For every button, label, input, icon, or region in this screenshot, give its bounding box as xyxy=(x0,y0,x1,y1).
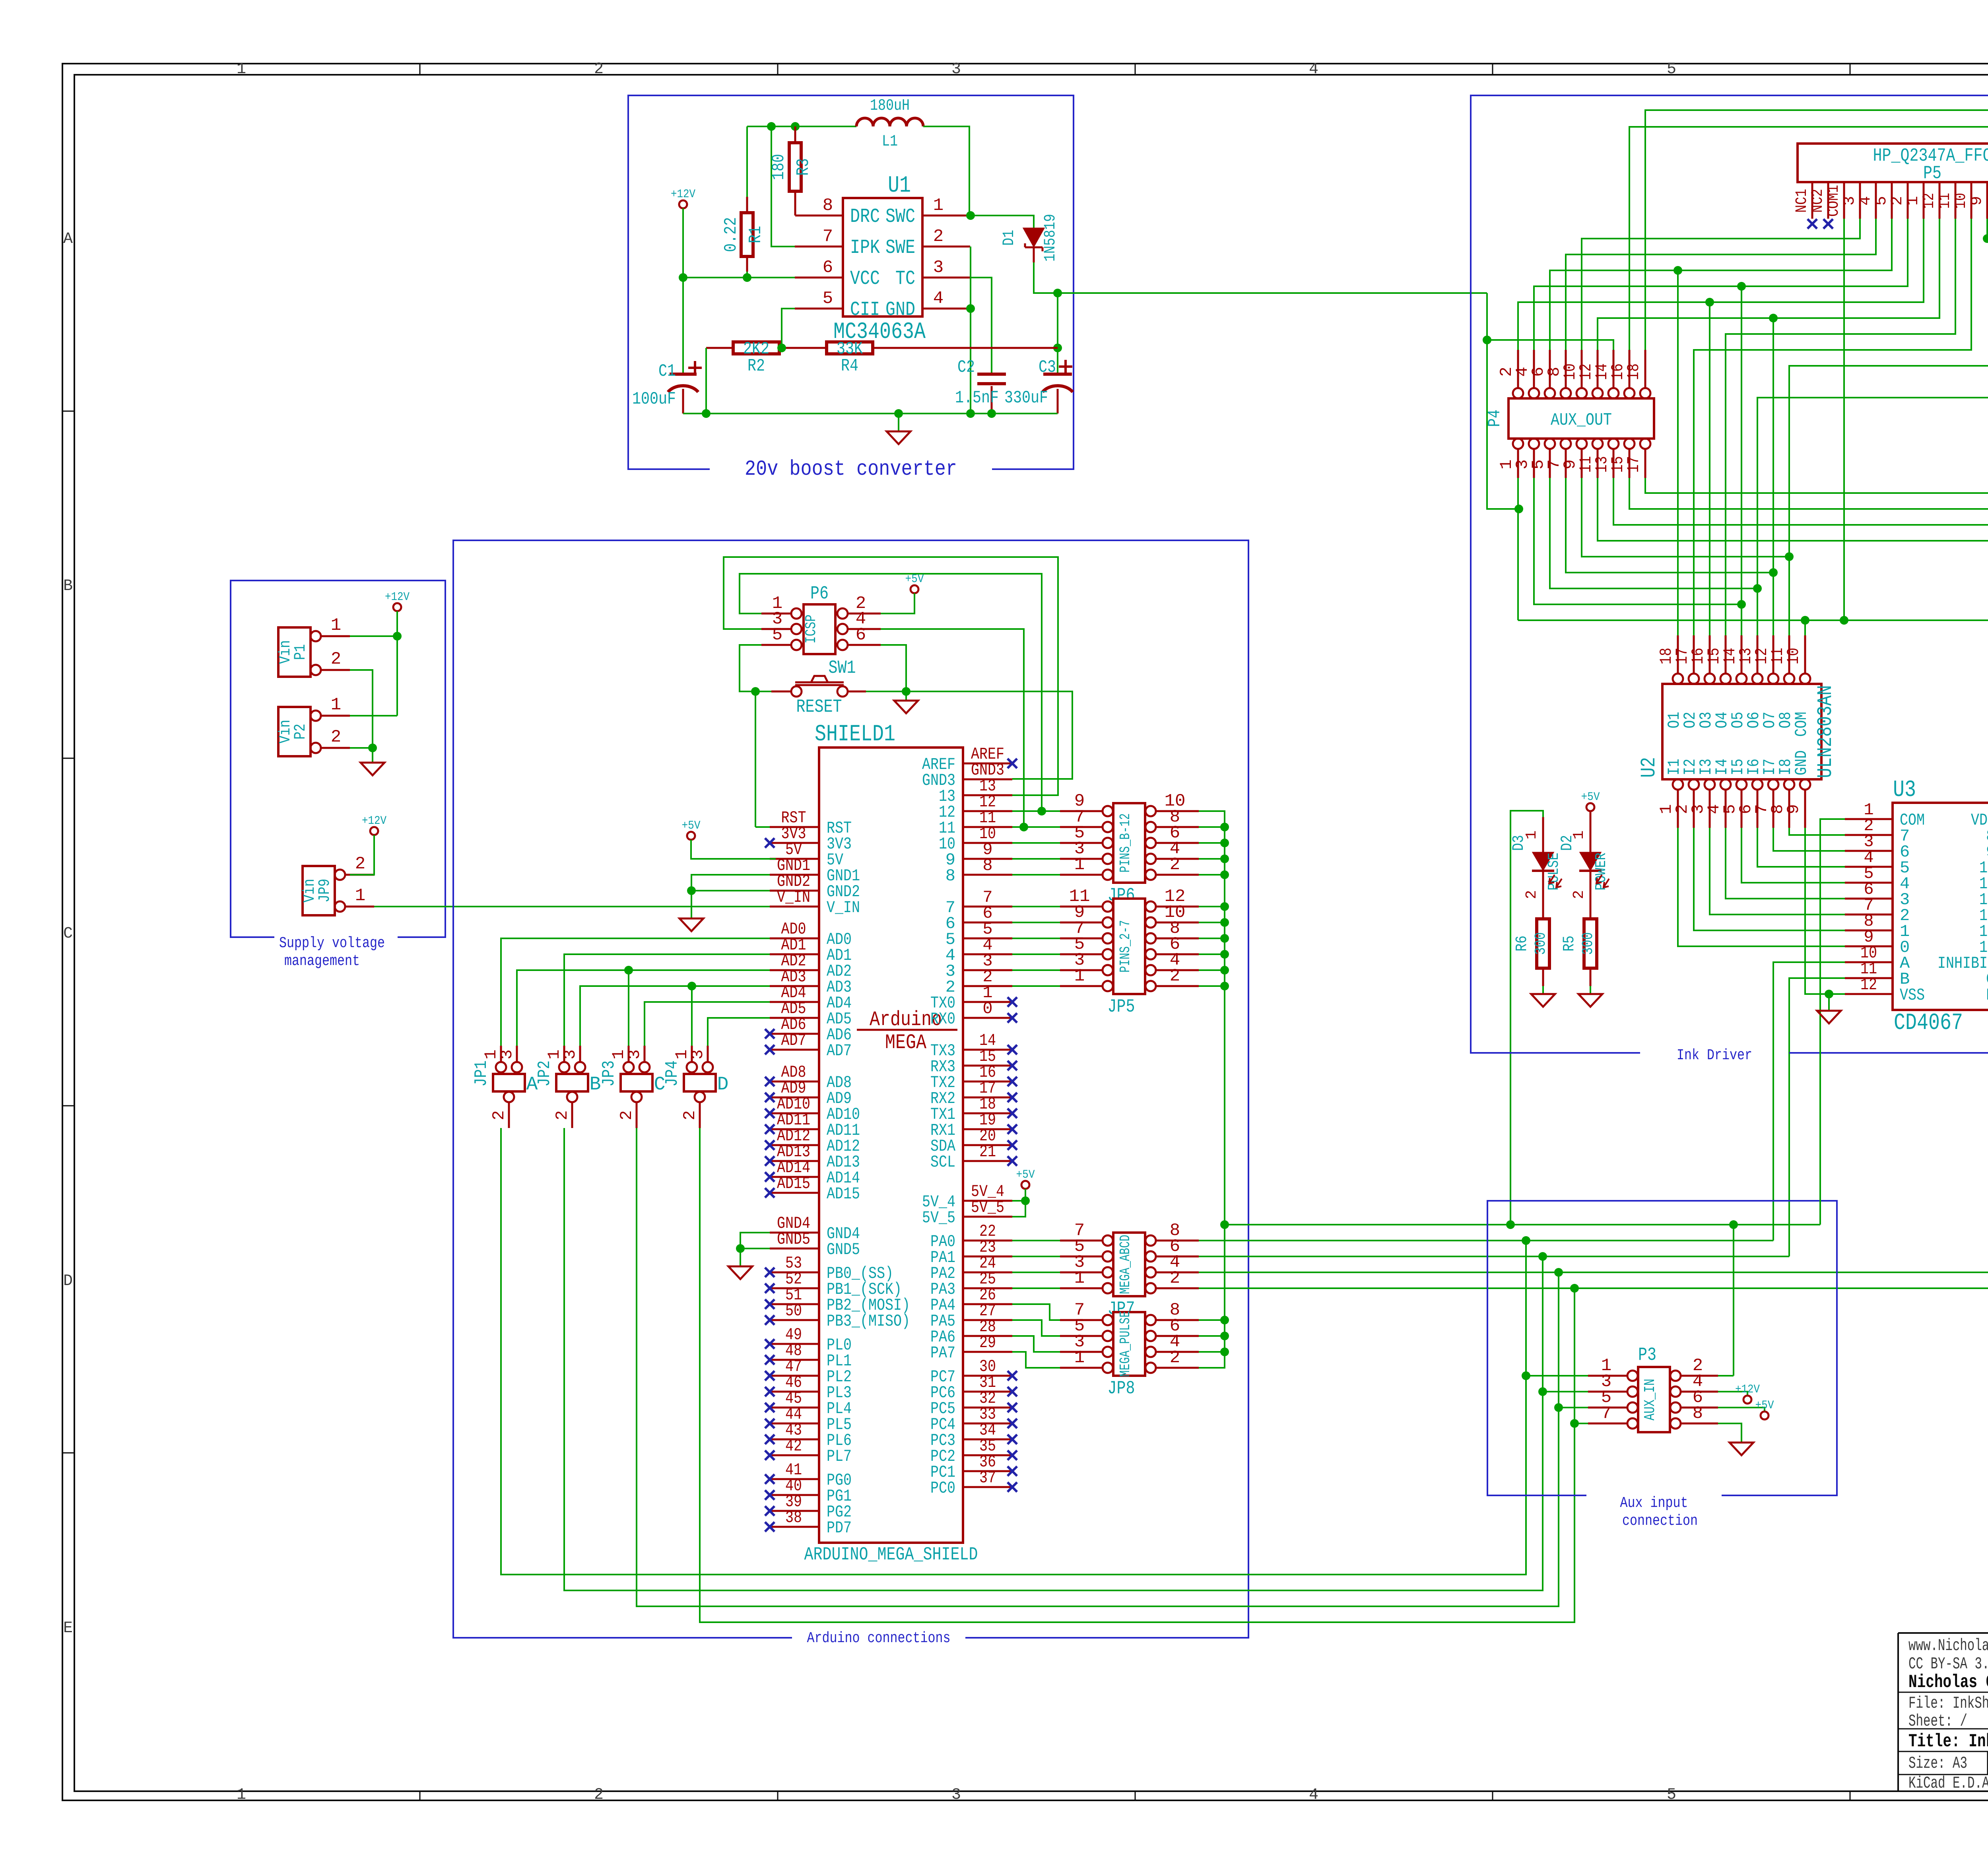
pin P5.2 xyxy=(1907,182,1909,219)
pin U3.4 xyxy=(1845,866,1893,868)
wire 5V xyxy=(691,840,776,859)
pin P4.5 (bottom) xyxy=(1545,439,1555,449)
junction xyxy=(777,344,786,352)
no-connect P5.NC1 xyxy=(1807,219,1817,229)
pin 5V_4 (right) xyxy=(963,1200,1012,1202)
svg-text:3: 3 xyxy=(688,1049,707,1059)
svg-text:C1: C1 xyxy=(658,361,676,381)
junction xyxy=(1220,950,1229,959)
ic U3 CD4067 xyxy=(1893,803,1988,1010)
pin P5.10 xyxy=(1971,182,1972,219)
wire P3.1 xyxy=(1526,1375,1588,1377)
wire B up to U3 xyxy=(1789,978,1845,1256)
svg-text:12: 12 xyxy=(1920,193,1938,209)
wire AD2 to JP1.3 xyxy=(517,970,770,1046)
svg-text:R1: R1 xyxy=(746,226,766,243)
capacitor C1 100uF polarized xyxy=(682,281,684,374)
section box Aux input connection xyxy=(1487,1201,1837,1495)
pin 20 (right) xyxy=(963,1144,1012,1146)
svg-text:management: management xyxy=(284,953,360,970)
svg-text:JP2: JP2 xyxy=(535,1060,555,1087)
no-connect P5.NC2 xyxy=(1823,219,1833,229)
svg-text:3: 3 xyxy=(951,1786,961,1804)
wire U2.16 tap xyxy=(1709,302,1710,635)
pin 46 (left) xyxy=(770,1391,819,1393)
pin 6 (right) xyxy=(963,922,1012,924)
pin 19 (right) xyxy=(963,1128,1012,1130)
pin 1 (right) xyxy=(963,1001,1012,1003)
diode D1 1N5819 xyxy=(1024,229,1043,246)
wires shield to JP5 xyxy=(1012,906,1060,907)
wire P6.2 to +5V xyxy=(881,593,914,614)
pin 3 (right) xyxy=(963,969,1012,971)
pin 4 (right) xyxy=(963,953,1012,955)
svg-text:2: 2 xyxy=(553,1110,572,1120)
svg-text:R3: R3 xyxy=(794,158,813,176)
svg-text:3: 3 xyxy=(933,258,944,278)
junction xyxy=(1737,282,1746,291)
junction xyxy=(1220,918,1229,927)
junction xyxy=(767,122,776,131)
pin U2.3 (bottom) xyxy=(1705,779,1715,790)
wire CII to divider xyxy=(782,309,795,348)
svg-text:D: D xyxy=(717,1074,729,1095)
svg-text:2: 2 xyxy=(331,649,341,669)
wire P5.9 to U4.18 xyxy=(1987,219,1988,635)
pin U3.8 xyxy=(1845,930,1893,932)
pin U3.7 xyxy=(1845,914,1893,916)
ground xyxy=(1531,994,1555,1007)
wire P4.16 top route to U4 xyxy=(1629,127,1988,635)
pin P4.15 (bottom) xyxy=(1624,439,1635,449)
power flag +5V (aux) xyxy=(1761,1412,1769,1419)
svg-text:5: 5 xyxy=(823,289,833,309)
section box Arduino connections xyxy=(453,540,1248,1638)
pin P5.12 xyxy=(1939,182,1941,219)
svg-text:9: 9 xyxy=(1784,804,1803,814)
pin 13 (right) xyxy=(963,794,1012,796)
wire JP right pin xyxy=(1199,985,1225,987)
wire P5.11 to U2.15 xyxy=(1726,219,1955,635)
pin GND2 (left) xyxy=(770,890,819,892)
junction xyxy=(1538,1252,1547,1261)
connector P3 AUX_IN xyxy=(1638,1367,1670,1432)
ground xyxy=(894,701,918,713)
connector JP7 MEGA_ABCD xyxy=(1113,1233,1145,1296)
wire JP9.2 to +12V xyxy=(350,835,374,875)
wire P5.4 to P4.8 xyxy=(1566,219,1876,350)
svg-text:MEGA_ABCD: MEGA_ABCD xyxy=(1117,1235,1134,1294)
svg-text:SWE: SWE xyxy=(885,237,915,259)
wire pulse line xyxy=(1225,1224,1820,1225)
wire U2 GND to U3 VSS xyxy=(1805,828,1845,994)
wire SWC to D1 xyxy=(971,216,1034,229)
svg-text:AUX_OUT: AUX_OUT xyxy=(1551,410,1612,430)
pin U2.17 (top) xyxy=(1689,674,1699,684)
connector P5 HP_Q2347A_FFC xyxy=(1798,144,1988,182)
wire U2.4 to U3 xyxy=(1726,828,1845,899)
junction xyxy=(966,409,975,418)
wire P2.1 xyxy=(350,715,397,716)
pin P4.8 (top) xyxy=(1561,388,1571,398)
pin AD14 (left) xyxy=(770,1176,819,1178)
wire pulse to LED D3 xyxy=(1510,811,1543,1225)
pin 12 (right) xyxy=(963,810,1012,812)
svg-text:6: 6 xyxy=(823,258,833,278)
wire P3.3 xyxy=(1543,1391,1588,1392)
wire gnd stub xyxy=(898,414,899,431)
svg-text:CII: CII xyxy=(850,299,880,321)
svg-text:2: 2 xyxy=(617,1110,636,1120)
svg-text:2: 2 xyxy=(594,60,604,78)
pin 52 (left) xyxy=(770,1287,819,1289)
pin AD2 (left) xyxy=(770,969,819,971)
svg-text:11: 11 xyxy=(1936,193,1954,209)
svg-text:37: 37 xyxy=(979,1468,996,1487)
junction xyxy=(987,409,996,418)
wire gnd stub xyxy=(1828,994,1830,1011)
svg-text:2: 2 xyxy=(933,227,944,247)
wire P3.7 xyxy=(1574,1423,1588,1424)
svg-text:VCC: VCC xyxy=(850,268,880,290)
power flag +5V (D2) xyxy=(1586,803,1594,811)
svg-text:GND: GND xyxy=(885,299,915,321)
power flag +5V (5V pin) xyxy=(687,832,695,840)
svg-text:P4: P4 xyxy=(1485,410,1505,427)
junction xyxy=(736,1244,745,1253)
pin 15 (right) xyxy=(963,1065,1012,1067)
resistor R2 2K2 xyxy=(706,347,733,349)
svg-text:+5V: +5V xyxy=(1755,1399,1774,1412)
wire P6.3 to pin13 xyxy=(724,557,1058,795)
wire U2.5 to U3 xyxy=(1741,828,1845,883)
pin AD1 (left) xyxy=(770,953,819,955)
junction xyxy=(1570,1419,1579,1428)
pin P4.9 (bottom) xyxy=(1576,439,1587,449)
resistor R3 xyxy=(794,126,796,143)
jumper JP4 (D) xyxy=(684,1074,716,1091)
svg-text:VSS: VSS xyxy=(1900,986,1925,1005)
svg-text:4: 4 xyxy=(1857,196,1875,206)
wire JP6/JP5 common vertical xyxy=(1199,811,1225,1368)
svg-text:5V_5: 5V_5 xyxy=(922,1208,955,1227)
svg-text:SW1: SW1 xyxy=(829,658,856,678)
pin U3.10 xyxy=(1845,961,1893,963)
wire P6.1 to pin12 xyxy=(740,574,1042,811)
wire R2 left down xyxy=(705,348,707,414)
svg-text:L1: L1 xyxy=(882,133,898,151)
junction xyxy=(751,687,760,696)
svg-text:+12V: +12V xyxy=(385,590,410,604)
junction xyxy=(1220,1220,1229,1229)
svg-text:0.22: 0.22 xyxy=(721,217,741,252)
led D2 POWER xyxy=(1590,811,1592,853)
svg-text:Sheet: /: Sheet: / xyxy=(1908,1712,1967,1731)
wire U2.8 to U3 xyxy=(1789,828,1845,835)
wire P3.5 xyxy=(1559,1407,1588,1408)
section box Ink Driver xyxy=(1471,95,1988,1053)
pin U2.18 (top) xyxy=(1673,674,1683,684)
pin 10 (right) xyxy=(963,842,1012,844)
svg-text:5: 5 xyxy=(1667,1786,1676,1804)
junction xyxy=(687,982,696,990)
svg-text:38: 38 xyxy=(785,1508,802,1527)
wire COM1 to rail xyxy=(1843,219,1845,620)
pin P4.7 (bottom) xyxy=(1561,439,1571,449)
svg-text:ARDUINO_MEGA_SHIELD: ARDUINO_MEGA_SHIELD xyxy=(804,1544,978,1565)
wire PA5 to JP8.5 xyxy=(1012,1320,1060,1336)
junction xyxy=(1570,1284,1579,1293)
svg-text:NC2: NC2 xyxy=(1809,189,1827,213)
svg-text:Ink Driver: Ink Driver xyxy=(1677,1047,1752,1064)
wire P5.1 to P4.2 / U2.16 xyxy=(1518,219,1924,350)
wire P1.2 down xyxy=(350,670,373,748)
svg-text:JP9: JP9 xyxy=(316,879,334,903)
svg-text:1: 1 xyxy=(1074,1268,1085,1288)
pin P4.18 (top) xyxy=(1640,388,1650,398)
svg-text:A: A xyxy=(63,230,73,248)
wire U2.6 to U3 xyxy=(1757,828,1845,867)
wire A up to U3 xyxy=(1773,962,1845,1241)
svg-text:7: 7 xyxy=(1601,1404,1611,1423)
svg-text:ICSP: ICSP xyxy=(803,615,820,644)
svg-text:Nicholas C Lewis: Nicholas C Lewis xyxy=(1908,1672,1988,1693)
connector P2 Vin xyxy=(278,707,311,756)
svg-text:5V_5: 5V_5 xyxy=(971,1198,1004,1217)
pin P4.14 (top) xyxy=(1608,388,1619,398)
pin U3.3 xyxy=(1845,850,1893,852)
svg-text:JP1: JP1 xyxy=(472,1060,491,1087)
pin P5.1 xyxy=(1923,182,1925,219)
pin 17 (right) xyxy=(963,1097,1012,1099)
svg-text:R2: R2 xyxy=(747,356,765,376)
pin U3.5 xyxy=(1845,882,1893,884)
pin U2.1 (bottom) xyxy=(1673,779,1683,790)
svg-text:1: 1 xyxy=(1074,855,1085,875)
pin GND4 (left) xyxy=(770,1232,819,1234)
ground xyxy=(1730,1443,1753,1455)
wire SWC top xyxy=(923,126,969,216)
ground xyxy=(679,918,703,931)
wire B line xyxy=(1199,1256,1789,1257)
junction xyxy=(1769,568,1778,577)
pin 14 (right) xyxy=(963,1049,1012,1051)
junction xyxy=(1483,336,1491,344)
pin AD11 (left) xyxy=(770,1128,819,1130)
wire U2 COM to rail xyxy=(1804,620,1806,635)
pin GND5 (left) xyxy=(770,1248,819,1250)
wire JP right pin xyxy=(1199,953,1225,955)
wire bus B xyxy=(564,1128,1543,1590)
wire P3.6 to +5V xyxy=(1718,1408,1765,1412)
junction xyxy=(1037,807,1046,815)
pin 29 (right) xyxy=(963,1351,1012,1353)
wire bus D xyxy=(700,1128,1574,1622)
svg-text:2: 2 xyxy=(1170,1348,1180,1368)
pin 22 (right) xyxy=(963,1240,1012,1242)
pin 8 (right) xyxy=(963,874,1012,876)
jumper JP2 (B) xyxy=(556,1074,588,1091)
junction xyxy=(1220,982,1229,990)
junction xyxy=(1737,600,1746,609)
pin P4.1 (bottom) xyxy=(1513,439,1523,449)
svg-text:2: 2 xyxy=(1170,855,1180,875)
svg-text:50: 50 xyxy=(785,1301,802,1320)
svg-text:6: 6 xyxy=(856,625,866,645)
pin AD3 (left) xyxy=(770,985,819,987)
svg-text:PINS_2-7: PINS_2-7 xyxy=(1117,920,1134,973)
pin U2.13 (top) xyxy=(1752,674,1763,684)
svg-text:21: 21 xyxy=(979,1142,996,1161)
pin U2.15 (top) xyxy=(1720,674,1731,684)
pin 47 (left) xyxy=(770,1375,819,1377)
led D3 PULSE xyxy=(1542,817,1544,853)
wire P4.18 top route to U4 xyxy=(1645,110,1988,635)
wire P4 col 4058 staircase xyxy=(1613,478,1988,635)
connector P1 Vin xyxy=(278,627,311,677)
svg-text:IPK: IPK xyxy=(850,237,880,259)
wire JP right pin xyxy=(1199,1351,1225,1353)
pin AD10 (left) xyxy=(770,1113,819,1114)
pin 32 (right) xyxy=(963,1407,1012,1409)
pin P4.16 (top) xyxy=(1624,388,1635,398)
svg-text:connection: connection xyxy=(1622,1513,1698,1530)
svg-text:PD7: PD7 xyxy=(827,1518,852,1538)
junction xyxy=(1220,966,1229,975)
wire U2.2 to U3 xyxy=(1694,828,1845,930)
resistor R5 300 xyxy=(1584,919,1597,968)
wire D1 output xyxy=(1034,262,1487,293)
pin AD7 (left) xyxy=(770,1049,819,1051)
svg-text:2: 2 xyxy=(1523,890,1540,899)
svg-text:4: 4 xyxy=(933,289,944,309)
junction xyxy=(1769,314,1778,322)
wire AD0 to JP1.1 xyxy=(501,938,770,1046)
pin 49 (left) xyxy=(770,1343,819,1345)
svg-text:SCL: SCL xyxy=(930,1153,955,1172)
wire P4 col 3898 staircase xyxy=(1550,478,1757,588)
svg-text:SHIELD1: SHIELD1 xyxy=(815,722,895,748)
pin U2.6 (bottom) xyxy=(1752,779,1763,790)
wire U2.7 to U3 xyxy=(1773,828,1845,851)
pin P4.11 (bottom) xyxy=(1592,439,1603,449)
wire gnd stub xyxy=(372,748,373,763)
pin 37 (right) xyxy=(963,1486,1012,1488)
pin AD9 (left) xyxy=(770,1097,819,1099)
pin P4.6 (top) xyxy=(1545,388,1555,398)
pin 30 (right) xyxy=(963,1375,1012,1377)
svg-text:100uF: 100uF xyxy=(632,389,676,409)
connector P6 ICSP xyxy=(804,604,835,654)
wire +12V to VCC xyxy=(682,208,684,278)
junction xyxy=(743,273,751,282)
pin P4.4 (top) xyxy=(1529,388,1539,398)
pin U2.2 (bottom) xyxy=(1689,779,1699,790)
svg-text:PB3_(MISO): PB3_(MISO) xyxy=(827,1312,910,1331)
wire JP right pin xyxy=(1199,969,1225,971)
svg-text:E: E xyxy=(63,1619,73,1637)
pin U2.12 (top) xyxy=(1768,674,1778,684)
pin 50 (left) xyxy=(770,1319,819,1321)
svg-text:29: 29 xyxy=(979,1333,996,1352)
svg-text:www.NicholasCLewis.com/InkShie: www.NicholasCLewis.com/InkShield xyxy=(1908,1636,1988,1655)
pin 2 (right) xyxy=(963,985,1012,987)
pin 31 (right) xyxy=(963,1391,1012,1393)
wires shield to JP6 xyxy=(1012,810,1060,812)
svg-text:R4: R4 xyxy=(841,356,858,376)
svg-text:KiCad E.D.A.: KiCad E.D.A. xyxy=(1908,1774,1988,1793)
wire GND4/GND5 tie xyxy=(740,1233,770,1266)
svg-text:P2: P2 xyxy=(292,724,310,740)
svg-text:P6: P6 xyxy=(810,583,829,604)
pin 28 (right) xyxy=(963,1335,1012,1337)
switch SW1 RESET xyxy=(791,686,802,697)
junction xyxy=(1729,1220,1738,1229)
jumper JP1 (A) xyxy=(493,1074,525,1091)
pin AD15 (left) xyxy=(770,1192,819,1194)
pin 36 (right) xyxy=(963,1470,1012,1472)
pin 41 (left) xyxy=(770,1478,819,1480)
junction xyxy=(1514,505,1523,513)
power flag +12V (P1) xyxy=(393,603,401,611)
wire P4 col 4098 staircase xyxy=(1629,478,1988,635)
svg-text:2: 2 xyxy=(680,1110,699,1120)
wire P1.1 to +12V xyxy=(350,635,397,637)
svg-text:U1: U1 xyxy=(888,173,911,199)
ground xyxy=(1817,1011,1841,1023)
wire JP right pin xyxy=(1199,922,1225,923)
pin 5V (left) xyxy=(770,858,819,860)
junction xyxy=(1053,344,1062,352)
svg-text:2: 2 xyxy=(1170,966,1180,986)
capacitor C2 1.5nF xyxy=(977,373,1006,376)
wire P3.2 to pulse net xyxy=(1718,1375,1734,1377)
pin U3.11 xyxy=(1845,977,1893,979)
svg-text:AD7: AD7 xyxy=(781,1031,806,1050)
wire JP right pin xyxy=(1199,1335,1225,1337)
svg-text:1.5nF: 1.5nF xyxy=(955,388,999,408)
svg-text:1: 1 xyxy=(331,695,341,715)
pin 39 (left) xyxy=(770,1510,819,1512)
wire AD3 to JP2.3 xyxy=(580,986,770,1046)
svg-text:PL7: PL7 xyxy=(827,1447,852,1466)
pin P4.10 (top) xyxy=(1576,388,1587,398)
junction xyxy=(1522,1236,1530,1245)
svg-text:300: 300 xyxy=(1580,932,1597,955)
wire SWE down xyxy=(970,247,971,414)
junction xyxy=(1220,1316,1229,1324)
wire P6.4 to pin11 xyxy=(881,629,1024,827)
connector JP8 MEGA_PULSE xyxy=(1113,1312,1145,1376)
pin AD13 (left) xyxy=(770,1160,819,1162)
svg-text:5: 5 xyxy=(1873,196,1891,206)
svg-text:4: 4 xyxy=(1309,1786,1318,1804)
wire D line xyxy=(1199,1287,1988,1289)
power flag +12V (JP9) xyxy=(370,827,378,835)
wire P5.8 to U2.13 col xyxy=(1757,219,1988,635)
connector P4 AUX_OUT xyxy=(1508,398,1654,439)
pin AD5 (left) xyxy=(770,1017,819,1019)
svg-text:Title: InkShield: Title: InkShield xyxy=(1908,1731,1988,1752)
wire P6.6 to gnd xyxy=(881,645,906,701)
junction xyxy=(1554,1403,1563,1412)
junction xyxy=(1220,1347,1229,1356)
wire R5 gnd xyxy=(1590,986,1591,994)
junction xyxy=(791,122,800,131)
pin U2.7 (bottom) xyxy=(1768,779,1778,790)
pin AD12 (left) xyxy=(770,1144,819,1146)
svg-text:1: 1 xyxy=(1074,1348,1085,1368)
